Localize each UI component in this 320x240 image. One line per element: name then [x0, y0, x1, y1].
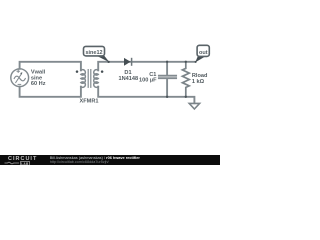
source sine wave [14, 76, 25, 81]
phase dot secondary [101, 70, 104, 73]
logo CIRCUIT text [8, 156, 37, 162]
junction dot Rload top [185, 61, 187, 63]
watermark text line 1 [50, 156, 140, 160]
junction dot C1 top [166, 61, 168, 63]
resistor Rload [182, 62, 189, 97]
source plus sign [17, 70, 19, 72]
transformer XFMR1 primary winding [81, 70, 85, 88]
source minus sign [18, 83, 21, 85]
junction dot C1 bottom [166, 96, 168, 98]
svg-text:Rload: Rload [192, 73, 208, 79]
svg-text:1N4148: 1N4148 [118, 76, 138, 82]
transformer core lines [88, 70, 91, 88]
diode D1 cathode bar [131, 58, 133, 66]
net flag sine12 tail [97, 56, 110, 63]
svg-text:out: out [199, 50, 208, 56]
transformer XFMR1 secondary winding [94, 70, 98, 88]
phase dot primary [76, 70, 79, 73]
watermark text line 2 [50, 160, 109, 164]
svg-text:100 µF: 100 µF [139, 78, 157, 84]
diode D1 triangle [124, 58, 131, 66]
wire top left loop [20, 62, 81, 71]
source arrow [16, 74, 22, 83]
source arrowhead [20, 72, 22, 74]
net flag out box [197, 45, 209, 56]
net flag sine12 box [84, 46, 105, 56]
net flag out tail [195, 56, 205, 62]
junction dot Rload bottom [185, 96, 187, 98]
logo sine squiggle [4, 161, 20, 165]
svg-text:60 Hz: 60 Hz [31, 81, 46, 87]
svg-text:1 kΩ: 1 kΩ [192, 79, 205, 85]
ground [189, 103, 199, 109]
wire secondary top rail [98, 62, 195, 71]
wire bottom left loop [20, 87, 81, 97]
logo LAB text [20, 161, 31, 167]
wire secondary bottom rail [98, 87, 194, 104]
svg-text:XFMR1: XFMR1 [80, 99, 99, 105]
voltage source Vwall circle [11, 69, 29, 87]
watermark bar [0, 155, 220, 165]
capacitor C1 [159, 62, 176, 97]
svg-text:sine12: sine12 [85, 50, 102, 56]
